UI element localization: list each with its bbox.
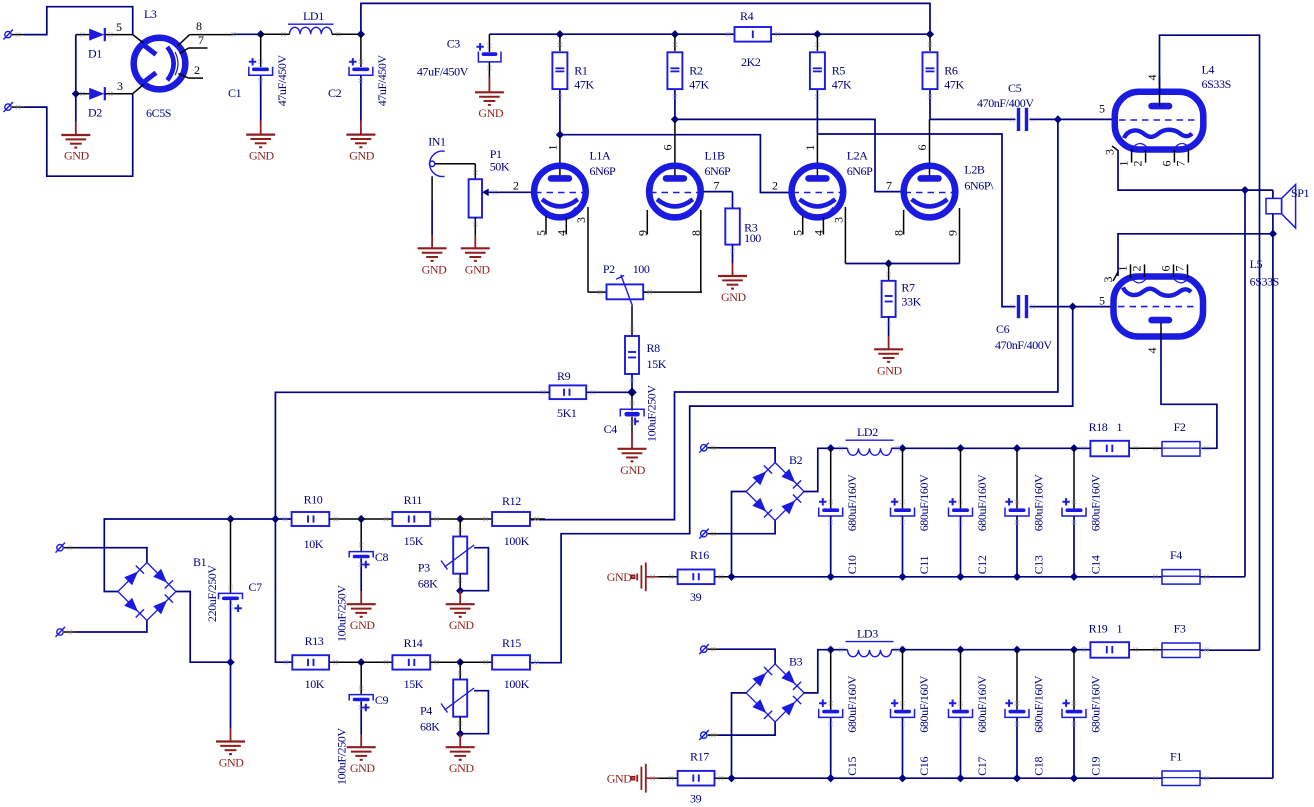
ground (IN1) (418, 236, 448, 276)
potentiometer P4 (420, 662, 488, 738)
svg-text:47K: 47K (689, 78, 709, 92)
wire B2 plus to LD2 rail (804, 448, 847, 491)
svg-text:C17: C17 (975, 756, 989, 775)
svg-text:IN1: IN1 (428, 135, 446, 149)
svg-text:7: 7 (1173, 266, 1187, 272)
resistor R19 (1089, 621, 1162, 657)
resistor R6 (923, 34, 965, 119)
svg-text:GND: GND (465, 262, 491, 276)
resistor R17 (678, 749, 732, 805)
svg-text:6: 6 (1159, 161, 1173, 167)
capacitor C7 (205, 519, 262, 662)
svg-text:P3: P3 (418, 561, 430, 575)
resistor R8 (625, 336, 667, 392)
wire C5 to L4 grid (1058, 118, 1113, 120)
svg-text:680uF/160V: 680uF/160V (1031, 675, 1045, 732)
svg-text:6N6P\: 6N6P\ (964, 178, 994, 192)
svg-text:D1: D1 (88, 47, 102, 61)
bridge B2 (746, 453, 804, 521)
svg-text:15K: 15K (404, 677, 424, 691)
svg-text:R4: R4 (740, 9, 754, 23)
svg-text:1: 1 (1116, 266, 1130, 272)
svg-text:GND: GND (877, 364, 903, 378)
node C17 top (956, 646, 964, 654)
svg-text:15K: 15K (647, 357, 667, 371)
resistor R9 (550, 369, 632, 420)
inductor LD2 (846, 425, 1091, 455)
svg-text:GND: GND (350, 618, 376, 632)
wire J10 to B3 (719, 722, 775, 735)
fuse F2 (1162, 420, 1200, 456)
inductor LD1 (261, 9, 361, 34)
node C14 top (1070, 444, 1078, 452)
node diode anodes junction (72, 90, 80, 98)
svg-text:680uF/160V: 680uF/160V (917, 474, 931, 531)
wire PSU3 bottom rail (732, 777, 1163, 779)
svg-text:100uF/250V: 100uF/250V (335, 728, 349, 785)
resistor R1 (552, 34, 594, 135)
wire J5 to B1 (76, 548, 147, 563)
svg-text:C8: C8 (375, 550, 389, 564)
svg-text:68K: 68K (420, 719, 440, 733)
svg-text:2: 2 (194, 63, 200, 77)
svg-text:680uF/160V: 680uF/160V (1088, 675, 1102, 732)
svg-text:GND: GND (350, 761, 376, 775)
node C10 bot (827, 573, 835, 581)
resistor R10 (292, 493, 362, 551)
svg-text:5: 5 (116, 20, 122, 34)
svg-text:R1: R1 (574, 64, 588, 78)
svg-text:2: 2 (1131, 161, 1145, 167)
svg-text:GND: GND (607, 772, 633, 786)
wire L2A plate to C6 (817, 134, 1015, 307)
potentiometer P2 (588, 262, 702, 336)
ground (C1) (246, 121, 275, 163)
svg-text:4: 4 (811, 230, 825, 236)
svg-text:C18: C18 (1031, 756, 1045, 775)
ground (C8) (347, 591, 376, 632)
svg-text:1: 1 (1117, 621, 1123, 635)
svg-text:C6: C6 (996, 322, 1010, 336)
capacitor C18 (1005, 650, 1045, 779)
capacitor C15 (819, 650, 859, 779)
node R16/B2 minus (727, 573, 735, 581)
svg-text:3: 3 (831, 217, 845, 223)
wire B1 minus to lower rail (176, 592, 231, 663)
svg-text:GND: GND (607, 570, 633, 584)
svg-text:GND: GND (478, 106, 504, 120)
connector J10 (PSU3 AC b) (699, 730, 719, 740)
svg-text:4: 4 (1145, 75, 1159, 81)
wire diode column (75, 35, 77, 122)
connector J8 (PSU2 AC b) (699, 529, 719, 539)
capacitor C10 (819, 448, 859, 577)
svg-text:2: 2 (513, 178, 519, 192)
svg-text:C11: C11 (917, 556, 931, 575)
ground (C4) (618, 432, 647, 477)
connector J2 (AC in bottom) (4, 102, 25, 112)
node C9 top (357, 658, 365, 666)
svg-text:6: 6 (660, 145, 674, 151)
svg-text:P4: P4 (420, 704, 432, 718)
svg-text:470nF/400V: 470nF/400V (995, 338, 1052, 352)
tube L1A 6N6P (513, 135, 616, 293)
svg-text:L3: L3 (144, 7, 157, 21)
node P3 top (456, 515, 464, 523)
tube L3 (116, 7, 233, 120)
svg-text:C12: C12 (975, 555, 989, 574)
connector IN1 (428, 135, 475, 236)
wire pin8 rail (233, 33, 261, 35)
node P4 top (456, 658, 464, 666)
svg-text:R10: R10 (304, 493, 323, 507)
node C18 top (1013, 646, 1021, 654)
svg-text:GND: GND (64, 149, 90, 163)
svg-text:B2: B2 (789, 453, 803, 467)
node R5 top (813, 30, 821, 38)
svg-text:8: 8 (196, 19, 202, 33)
ground (R7) (874, 336, 903, 378)
svg-text:33K: 33K (901, 295, 921, 309)
svg-text:3: 3 (117, 79, 123, 93)
node C10 top (827, 444, 835, 452)
svg-text:LD2: LD2 (857, 425, 878, 439)
wire bias riser to R13 (275, 519, 292, 662)
ground (C2) (346, 121, 375, 163)
svg-text:6C5S: 6C5S (146, 106, 171, 120)
svg-text:10K: 10K (305, 677, 325, 691)
svg-text:R19: R19 (1089, 621, 1108, 635)
svg-text:100K: 100K (504, 534, 530, 548)
svg-text:2: 2 (1130, 266, 1144, 272)
svg-text:R7: R7 (901, 281, 915, 295)
svg-text:GND: GND (449, 761, 475, 775)
svg-text:P2: P2 (603, 262, 615, 276)
svg-text:9: 9 (635, 230, 649, 236)
svg-text:1: 1 (545, 145, 559, 151)
resistor R2 (667, 34, 709, 119)
node R17/B3 minus (727, 774, 735, 782)
node R6 top (926, 30, 934, 38)
svg-text:220uF/250V: 220uF/250V (205, 565, 219, 622)
svg-text:6S33S: 6S33S (1202, 77, 1231, 91)
svg-text:D2: D2 (88, 106, 102, 120)
svg-text:F2: F2 (1174, 420, 1186, 434)
svg-text:GND: GND (249, 149, 275, 163)
capacitor C9 (335, 662, 389, 785)
svg-text:39: 39 (690, 590, 702, 604)
capacitor C8 (335, 519, 389, 642)
svg-text:C14: C14 (1088, 555, 1102, 574)
svg-text:C19: C19 (1088, 756, 1102, 775)
bridge B3 (746, 654, 804, 722)
node C5 out (1054, 115, 1062, 123)
svg-text:47K: 47K (574, 78, 594, 92)
svg-text:4: 4 (1145, 348, 1159, 354)
svg-text:F3: F3 (1174, 621, 1186, 635)
svg-text:R5: R5 (832, 64, 846, 78)
resistor R15 (460, 636, 530, 691)
svg-text:1: 1 (1117, 420, 1123, 434)
svg-text:R16: R16 (690, 548, 709, 562)
svg-text:C4: C4 (604, 422, 618, 436)
ground (P4) (446, 734, 475, 776)
ground (P3) (446, 591, 475, 633)
wire B3 plus to LD3 rail (804, 650, 847, 693)
svg-text:100: 100 (633, 262, 650, 276)
svg-text:C10: C10 (845, 555, 859, 574)
wire SP1 bottom to L5 cathode (1113, 234, 1273, 281)
fuse F3 (1162, 621, 1260, 657)
svg-text:LD3: LD3 (857, 626, 878, 640)
svg-text:L4: L4 (1202, 63, 1215, 77)
svg-text:5: 5 (791, 230, 805, 236)
node C19 bot (1070, 774, 1078, 782)
node SP1 top (1241, 186, 1249, 194)
svg-text:GND: GND (620, 463, 646, 477)
svg-text:47K: 47K (832, 78, 852, 92)
wire PSU2 bottom rail (732, 576, 1163, 578)
capacitor C14 (1062, 448, 1102, 577)
resistor R4 (735, 9, 772, 69)
svg-text:8: 8 (892, 230, 906, 236)
node SP1 bottom (1269, 230, 1277, 238)
svg-text:C13: C13 (1031, 555, 1045, 574)
svg-text:R13: R13 (305, 634, 324, 648)
svg-text:47uF/450V: 47uF/450V (275, 54, 289, 106)
tube L5 6S33S (1099, 257, 1279, 354)
svg-text:5: 5 (1099, 102, 1105, 116)
svg-text:F1: F1 (1170, 750, 1182, 764)
wire L5 grid net to R15 (530, 307, 1073, 663)
ground (P1) (461, 236, 491, 276)
diode D2 (76, 87, 133, 119)
wire J1 to loop top (24, 7, 133, 35)
svg-text:R18: R18 (1089, 420, 1108, 434)
wire L4 cathode to SP1 (1112, 146, 1273, 190)
svg-text:680uF/160V: 680uF/160V (975, 474, 989, 531)
connector J6 (mains N) (56, 627, 77, 637)
svg-text:100: 100 (744, 231, 761, 245)
svg-text:39: 39 (690, 791, 702, 805)
wire B+ top loop (361, 3, 930, 34)
node C14 bot (1070, 573, 1078, 581)
svg-text:6N6P: 6N6P (590, 164, 616, 178)
node C15 top (827, 646, 835, 654)
ground (C7) (216, 662, 245, 769)
svg-text:100uF/250V: 100uF/250V (645, 385, 659, 442)
ground (R3) (718, 263, 747, 304)
resistor R12 (460, 494, 545, 548)
svg-text:SP1: SP1 (1291, 186, 1310, 200)
node C7 top (226, 515, 234, 523)
node bias riser (271, 515, 279, 523)
capacitor C17 (949, 650, 989, 779)
potentiometer P3 (418, 519, 489, 595)
svg-text:L2A: L2A (847, 149, 869, 163)
wire SP1 top to F4 (1244, 190, 1246, 577)
connector J1 (AC in top) (4, 30, 25, 40)
capacitor C19 (1062, 650, 1102, 779)
svg-text:7: 7 (714, 178, 720, 192)
svg-text:680uF/160V: 680uF/160V (845, 675, 859, 732)
svg-text:2: 2 (772, 178, 778, 192)
ground tap (PSU2) (607, 562, 678, 591)
svg-text:R9: R9 (557, 369, 571, 383)
node C19 top (1070, 646, 1078, 654)
capacitor C11 (891, 448, 931, 577)
tube L2B 6N6P (886, 119, 994, 263)
wire cathodes to R7 (845, 263, 959, 265)
svg-text:5K1: 5K1 (557, 406, 577, 420)
wire B1 plus to divider rail (104, 519, 291, 592)
resistor R13 (292, 634, 361, 691)
svg-text:GND: GND (219, 755, 245, 769)
node C1 top (257, 30, 265, 38)
tube L2A 6N6P (772, 134, 873, 264)
resistor R16 (678, 548, 732, 604)
svg-text:3: 3 (574, 217, 588, 223)
wire B3 minus to R17 rail (732, 693, 747, 778)
ground tap (PSU3) (607, 764, 678, 793)
node L1B plate (671, 115, 679, 123)
svg-text:8: 8 (689, 230, 703, 236)
svg-text:C15: C15 (845, 756, 859, 775)
svg-text:6S33S: 6S33S (1250, 275, 1279, 289)
svg-text:LD1: LD1 (303, 9, 324, 23)
svg-text:5: 5 (1099, 294, 1105, 308)
svg-text:C7: C7 (249, 580, 263, 594)
svg-text:C3: C3 (447, 37, 461, 51)
svg-text:68K: 68K (418, 576, 438, 590)
svg-text:R14: R14 (404, 636, 423, 650)
svg-text:C5: C5 (1008, 81, 1022, 95)
node C12 bot (956, 573, 964, 581)
wire R9 left to bias rail (275, 392, 549, 518)
node C11 top (898, 444, 906, 452)
svg-text:L5: L5 (1250, 257, 1263, 271)
svg-text:470nF/400V: 470nF/400V (977, 96, 1034, 110)
resistor R7 (882, 264, 922, 337)
capacitor C16 (891, 650, 931, 779)
svg-text:F4: F4 (1170, 548, 1182, 562)
node C13 bot (1013, 573, 1021, 581)
svg-text:9: 9 (946, 230, 960, 236)
resistor R11 (361, 493, 460, 548)
svg-text:6: 6 (1159, 266, 1173, 272)
svg-text:10K: 10K (304, 537, 324, 551)
ground (diodes) (61, 122, 90, 163)
svg-text:C1: C1 (228, 86, 242, 100)
svg-text:R8: R8 (647, 341, 661, 355)
node R2 top (671, 30, 679, 38)
svg-text:6N6P: 6N6P (705, 164, 731, 178)
svg-text:47uF/450V: 47uF/450V (417, 65, 469, 79)
svg-text:50K: 50K (490, 160, 510, 174)
svg-text:C16: C16 (917, 756, 931, 775)
wire J2 to loop bottom (24, 94, 133, 177)
resistor R14 (361, 636, 460, 691)
capacitor C6 (995, 295, 1113, 352)
node C16 bot (898, 774, 906, 782)
wire B2 minus to R16 rail (732, 492, 747, 577)
svg-text:L1B: L1B (705, 149, 726, 163)
resistor R18 (1089, 420, 1162, 456)
svg-text:47uF/450V: 47uF/450V (375, 54, 389, 106)
svg-text:R12: R12 (502, 494, 521, 508)
svg-text:4: 4 (554, 230, 568, 236)
ground (C3) (475, 77, 504, 119)
svg-text:B3: B3 (789, 654, 803, 668)
svg-text:680uF/160V: 680uF/160V (1088, 474, 1102, 531)
node L1A plate (556, 131, 564, 139)
svg-text:680uF/160V: 680uF/160V (975, 675, 989, 732)
svg-text:680uF/160V: 680uF/160V (1031, 474, 1045, 531)
inductor LD3 (846, 626, 1091, 656)
tube L4 6S33S (1099, 63, 1231, 167)
wire L4 plate to F3 net (1160, 35, 1260, 650)
svg-text:15K: 15K (404, 534, 424, 548)
svg-text:GND: GND (721, 290, 747, 304)
fuse F1 (1162, 750, 1273, 786)
wire screen rail (489, 33, 930, 35)
speaker SP1 (1266, 185, 1310, 234)
node C8 top (357, 515, 365, 523)
node R8/R9/C4 (627, 388, 637, 398)
wire J7 to B2 (719, 448, 775, 463)
node C12 top (956, 444, 964, 452)
capacitor C2 (328, 34, 389, 120)
ground (C9) (347, 734, 376, 775)
node C13 top (1013, 444, 1021, 452)
capacitor C12 (949, 448, 989, 577)
svg-text:5: 5 (534, 230, 548, 236)
svg-text:7: 7 (886, 178, 892, 192)
svg-text:3: 3 (1101, 277, 1115, 283)
svg-text:R17: R17 (690, 749, 709, 763)
svg-text:R11: R11 (404, 493, 423, 507)
svg-text:680uF/160V: 680uF/160V (917, 675, 931, 732)
svg-text:2K2: 2K2 (741, 55, 761, 69)
node C16 top (898, 646, 906, 654)
svg-text:L2B: L2B (964, 163, 985, 177)
capacitor C5 (930, 81, 1058, 131)
resistor R5 (810, 34, 852, 134)
wire L5 plate to F2 (1161, 337, 1217, 448)
connector J9 (PSU3 AC a) (699, 644, 719, 654)
svg-text:100uF/250V: 100uF/250V (335, 585, 349, 642)
svg-text:7: 7 (1173, 161, 1187, 167)
svg-text:GND: GND (449, 618, 475, 632)
capacitor C13 (1005, 448, 1045, 577)
wire SP1 bottom to F1 (1272, 234, 1274, 778)
node R1 top (556, 30, 564, 38)
svg-text:C2: C2 (328, 86, 342, 100)
capacitor C1 (228, 34, 289, 120)
connector J5 (mains L) (56, 543, 77, 553)
node C18 bot (1013, 774, 1021, 782)
svg-text:100K: 100K (504, 677, 530, 691)
svg-text:GND: GND (422, 262, 448, 276)
svg-text:R2: R2 (689, 64, 703, 78)
node C2 top (357, 30, 365, 38)
node R7 top (884, 259, 892, 267)
potentiometer P1 (469, 147, 532, 236)
connector J7 (PSU2 AC a) (699, 443, 719, 453)
svg-text:680uF/160V: 680uF/160V (845, 474, 859, 531)
fuse F4 (1160, 548, 1245, 584)
wire L1A plate to L2A grid (560, 135, 789, 193)
